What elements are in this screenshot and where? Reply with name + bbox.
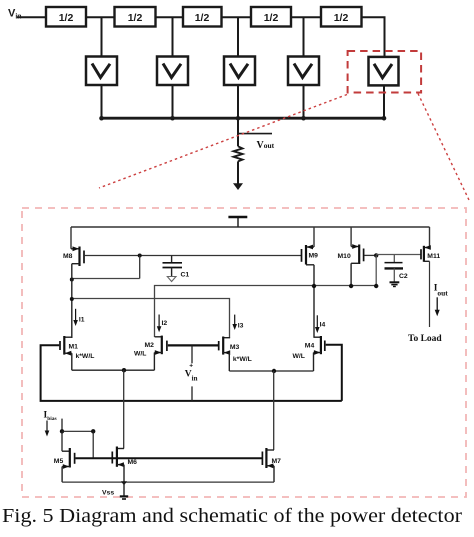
wire M8 gate-drain diode link vertical <box>139 256 141 279</box>
junction dot M10 gate <box>374 253 378 257</box>
junction dot bus A / M10 gate <box>374 284 378 288</box>
wire resistor to ground <box>237 161 239 183</box>
svg-text:+: + <box>189 363 193 370</box>
transistor M9 (PMOS mirror output) <box>302 227 315 265</box>
wire M11 drain output <box>429 261 431 327</box>
svg-text:1/2: 1/2 <box>195 12 210 24</box>
svg-text:W/L: W/L <box>134 350 146 357</box>
wire tail 1 down to M6 drain <box>123 370 125 448</box>
junction dot bus A / M10 drain <box>349 284 353 288</box>
red highlight rectangle around D5 <box>348 51 422 93</box>
junction dot bus-D2 <box>170 116 175 121</box>
VDD supply T symbol <box>228 217 247 227</box>
svg-text:Vss: Vss <box>102 490 114 497</box>
capacitor C1 <box>163 256 183 282</box>
wire A1 to A2 <box>86 16 115 18</box>
detector D1 <box>86 57 117 86</box>
svg-text:M9: M9 <box>309 253 319 260</box>
svg-text:C2: C2 <box>399 273 408 280</box>
wire M8 drain down to M1 drain <box>71 264 73 338</box>
transistor M2 (NMOS diff pair) <box>154 336 167 371</box>
svg-text:I1: I1 <box>79 317 85 324</box>
capacitor C2 <box>385 255 404 287</box>
junction dot tail 1 <box>122 368 126 372</box>
junction dot bus-D4 <box>301 116 306 121</box>
transistor M4 (NMOS diff pair 2) <box>314 336 325 371</box>
junction dot M8 gate line <box>138 254 142 258</box>
svg-text:M10: M10 <box>338 253 351 260</box>
detector D4 <box>288 57 319 86</box>
wire A3 to A4 <box>222 16 252 18</box>
ground symbol Vss <box>120 482 128 499</box>
wire D3 to bus <box>237 85 239 118</box>
transistor M7 (NMOS tail current 2) <box>262 448 274 482</box>
arrow M6 source at rail <box>121 481 127 485</box>
wire M1-M2 source join <box>72 369 155 371</box>
junction dot bus B / M1 drain <box>70 297 74 301</box>
red callout line right <box>418 94 469 201</box>
junction dot M8 drain diode <box>70 278 74 282</box>
transistor M11 (PMOS output) <box>421 227 431 262</box>
junction dot bus-D1 <box>99 116 104 121</box>
detector D5 <box>369 57 399 86</box>
junction dot bus A / M9 drain <box>312 284 316 288</box>
wire tail 2 down to M7 drain <box>273 371 275 450</box>
wire Vin to block A1 <box>17 16 46 18</box>
wire A2 to A3 <box>156 16 184 18</box>
svg-text:To Load: To Load <box>408 334 442 344</box>
wire M3-M4 source join <box>229 370 313 372</box>
svg-text:M4: M4 <box>305 342 315 349</box>
svg-text:1/2: 1/2 <box>128 12 143 24</box>
wire tap 1 down to detector D1 <box>101 17 103 56</box>
arrow current I1 <box>73 309 78 326</box>
wire VSS rail <box>62 481 274 483</box>
svg-text:W/L: W/L <box>293 353 305 360</box>
node Vout tick <box>238 133 272 135</box>
wire M2-M3 common gate line <box>168 344 219 346</box>
wire tap 3 down to detector D3 <box>237 17 239 56</box>
wire tap 2 down to detector D2 <box>172 17 174 56</box>
svg-text:Vout: Vout <box>257 140 275 151</box>
transistor M3 (NMOS diff pair 2) <box>219 337 231 372</box>
node Vin tap stub <box>191 345 193 363</box>
wire M9 drain down to M4 drain <box>313 265 315 338</box>
attenuator block A5 (1/2) <box>321 7 362 27</box>
ground arrow under resistor <box>233 183 243 190</box>
wire M10 gate lead <box>364 254 376 256</box>
red callout line left <box>99 95 347 189</box>
svg-text:I2: I2 <box>162 320 168 327</box>
wire summing bus <box>102 117 385 120</box>
wire A4 to A5 <box>291 16 321 18</box>
junction dot tail 2 <box>272 369 276 373</box>
wire M10 gate down to drain bus <box>375 255 377 285</box>
arrow I out <box>435 297 440 316</box>
svg-text:M8: M8 <box>63 253 73 260</box>
arrow current I3 <box>232 315 237 330</box>
wire D4 to bus <box>303 85 305 118</box>
wire M5 drain up to bias node <box>61 431 63 451</box>
junction dot gate tie <box>91 429 95 433</box>
transistor M6 (NMOS tail current) <box>112 447 124 483</box>
wire bus to resistor <box>237 118 239 146</box>
wire M10 drain down to bus <box>350 263 352 286</box>
svg-text:M3: M3 <box>230 344 240 351</box>
wire A5 output to detector D5 <box>362 17 385 56</box>
wire D1 to bus <box>101 85 103 118</box>
wire gate bus M5-M6-M7 <box>76 457 263 459</box>
transistor M10 (PMOS diode-connected) <box>351 227 364 264</box>
arrow I bias <box>45 421 50 437</box>
wire D5 to bus <box>383 85 385 118</box>
junction dot bias node <box>60 429 64 433</box>
svg-text:I3: I3 <box>238 323 244 330</box>
transistor M8 (PMOS diode-connected) <box>71 227 84 266</box>
svg-text:k*W/L: k*W/L <box>233 356 252 363</box>
svg-text:k*W/L: k*W/L <box>76 353 95 360</box>
detector D3 <box>224 57 255 86</box>
transistor M5 (NMOS bias diode) <box>62 448 75 482</box>
arrow current I2 <box>157 315 162 333</box>
svg-text:Fig. 5 Diagram and schematic o: Fig. 5 Diagram and schematic of the powe… <box>2 505 462 527</box>
junction dot bus-D5 <box>382 116 387 121</box>
wire tap 4 down to detector D4 <box>303 17 305 56</box>
svg-text:M11: M11 <box>427 253 440 260</box>
wire bias input stub <box>61 419 63 432</box>
wire gate tie down to gate bus <box>92 431 94 458</box>
wire D2 to bus <box>172 85 174 118</box>
wire Vin lower stub <box>191 386 193 401</box>
wire drain bus A (M2 drain to M9/M10) <box>155 286 377 338</box>
svg-text:I4: I4 <box>320 321 326 328</box>
wire bias node to gate tie <box>62 430 93 432</box>
svg-text:M7: M7 <box>272 458 282 465</box>
transistor M1 (NMOS diff pair) <box>60 336 72 370</box>
wire M8 gate to M9 gate (mirror gate line) <box>85 255 302 257</box>
resistor Rout <box>234 146 243 161</box>
detector D2 <box>157 57 188 86</box>
svg-text:M5: M5 <box>54 458 64 465</box>
svg-text:1/2: 1/2 <box>334 12 349 24</box>
schematic enclosure box (pink dashed) <box>22 208 466 497</box>
svg-text:M6: M6 <box>128 459 138 466</box>
svg-text:M2: M2 <box>145 342 155 349</box>
wire M1 gate lead and feedback line <box>41 345 342 401</box>
svg-text:C1: C1 <box>181 272 190 279</box>
svg-text:1/2: 1/2 <box>59 12 74 24</box>
svg-text:M1: M1 <box>69 344 79 351</box>
wire gate line to M11 <box>376 254 421 256</box>
attenuator block A3 (1/2) <box>183 7 222 27</box>
wire drain bus B (M1/M8 drain to M3 drain) <box>72 299 230 338</box>
wire M4 gate lead down to feedback line <box>326 345 342 401</box>
wire M8 gate-drain diode link horizontal <box>72 278 140 280</box>
attenuator block A2 (1/2) <box>115 7 156 27</box>
power rail VDD <box>71 226 430 228</box>
arrow current I4 <box>315 315 320 333</box>
attenuator block A4 (1/2) <box>251 7 291 27</box>
junction dot bus-D3 <box>236 116 241 121</box>
svg-text:1/2: 1/2 <box>264 12 279 24</box>
attenuator block A1 (1/2) <box>46 7 86 27</box>
